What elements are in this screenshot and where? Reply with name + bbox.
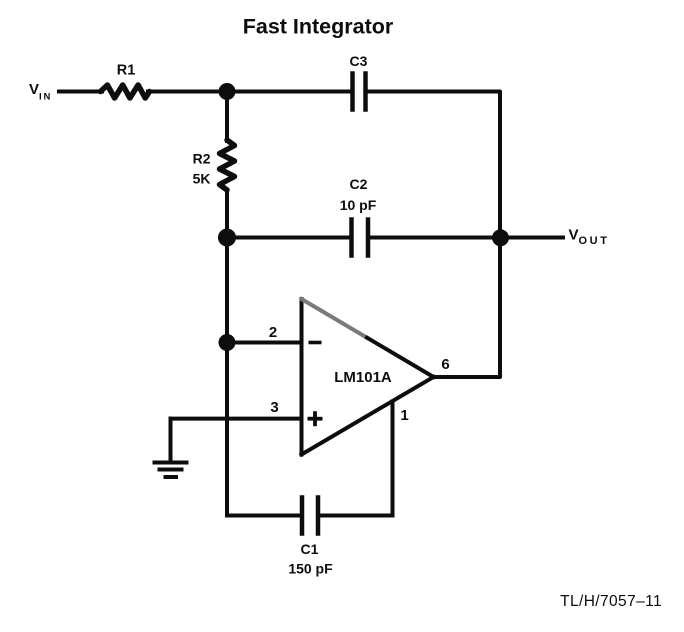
svg-text:Fast Integrator: Fast Integrator [243,15,394,39]
wire pin 1 [391,402,395,516]
svg-text:2: 2 [269,324,277,341]
svg-text:R2: R2 [193,151,211,167]
wire C1 to pin 1 [320,514,393,518]
wire pin 2 [227,341,302,345]
svg-text:5K: 5K [193,171,211,187]
svg-text:3: 3 [270,399,278,416]
svg-text:C2: C2 [350,176,368,192]
node A junction dot [219,83,236,100]
svg-text:10 pF: 10 pF [340,197,377,213]
capacitor C3 [353,74,366,110]
wire node B down to node C [225,238,229,343]
svg-text:C3: C3 [350,53,368,69]
wire pin 3 [171,417,302,421]
svg-text:R1: R1 [117,63,136,79]
wire C2 to VOUT node [370,236,500,240]
svg-text:1: 1 [400,407,408,424]
capacitor C1 [302,498,318,534]
wire node A down to R2 [225,92,229,142]
svg-text:6: 6 [441,356,449,373]
resistor R2 [220,140,235,190]
node B junction dot [218,229,236,247]
svg-text:VIN: VIN [29,81,52,102]
svg-text:LM101A: LM101A [334,369,392,386]
ground [155,463,187,478]
capacitor C2 [352,220,369,256]
svg-text:VOUT: VOUT [569,227,610,248]
wire VIN to R1 [59,90,102,94]
wire node B to C2 [227,236,350,240]
op-amp minus sign [309,341,322,345]
svg-text:150 pF: 150 pF [288,561,333,577]
node VOUT junction dot [492,229,509,246]
svg-text:C1: C1 [301,541,319,557]
wire ground drop [169,419,173,462]
op-amp plus sign [308,411,323,426]
resistor R1 [101,85,150,98]
svg-text:TL/H/7057–11: TL/H/7057–11 [560,593,662,610]
wire bottom left to C1 [227,514,300,518]
op-amp U1 triangle [302,299,434,455]
wire C3 to right corner [368,92,501,238]
wire R1 to node A [148,90,227,94]
node C junction dot [219,334,236,351]
wire node A to C3 [227,90,351,94]
wire R2 to node B [225,191,229,238]
wire node C down to bottom wire [225,343,229,516]
wire VOUT node to VOUT label [500,236,563,240]
wire right vertical to op-amp output [434,238,501,378]
